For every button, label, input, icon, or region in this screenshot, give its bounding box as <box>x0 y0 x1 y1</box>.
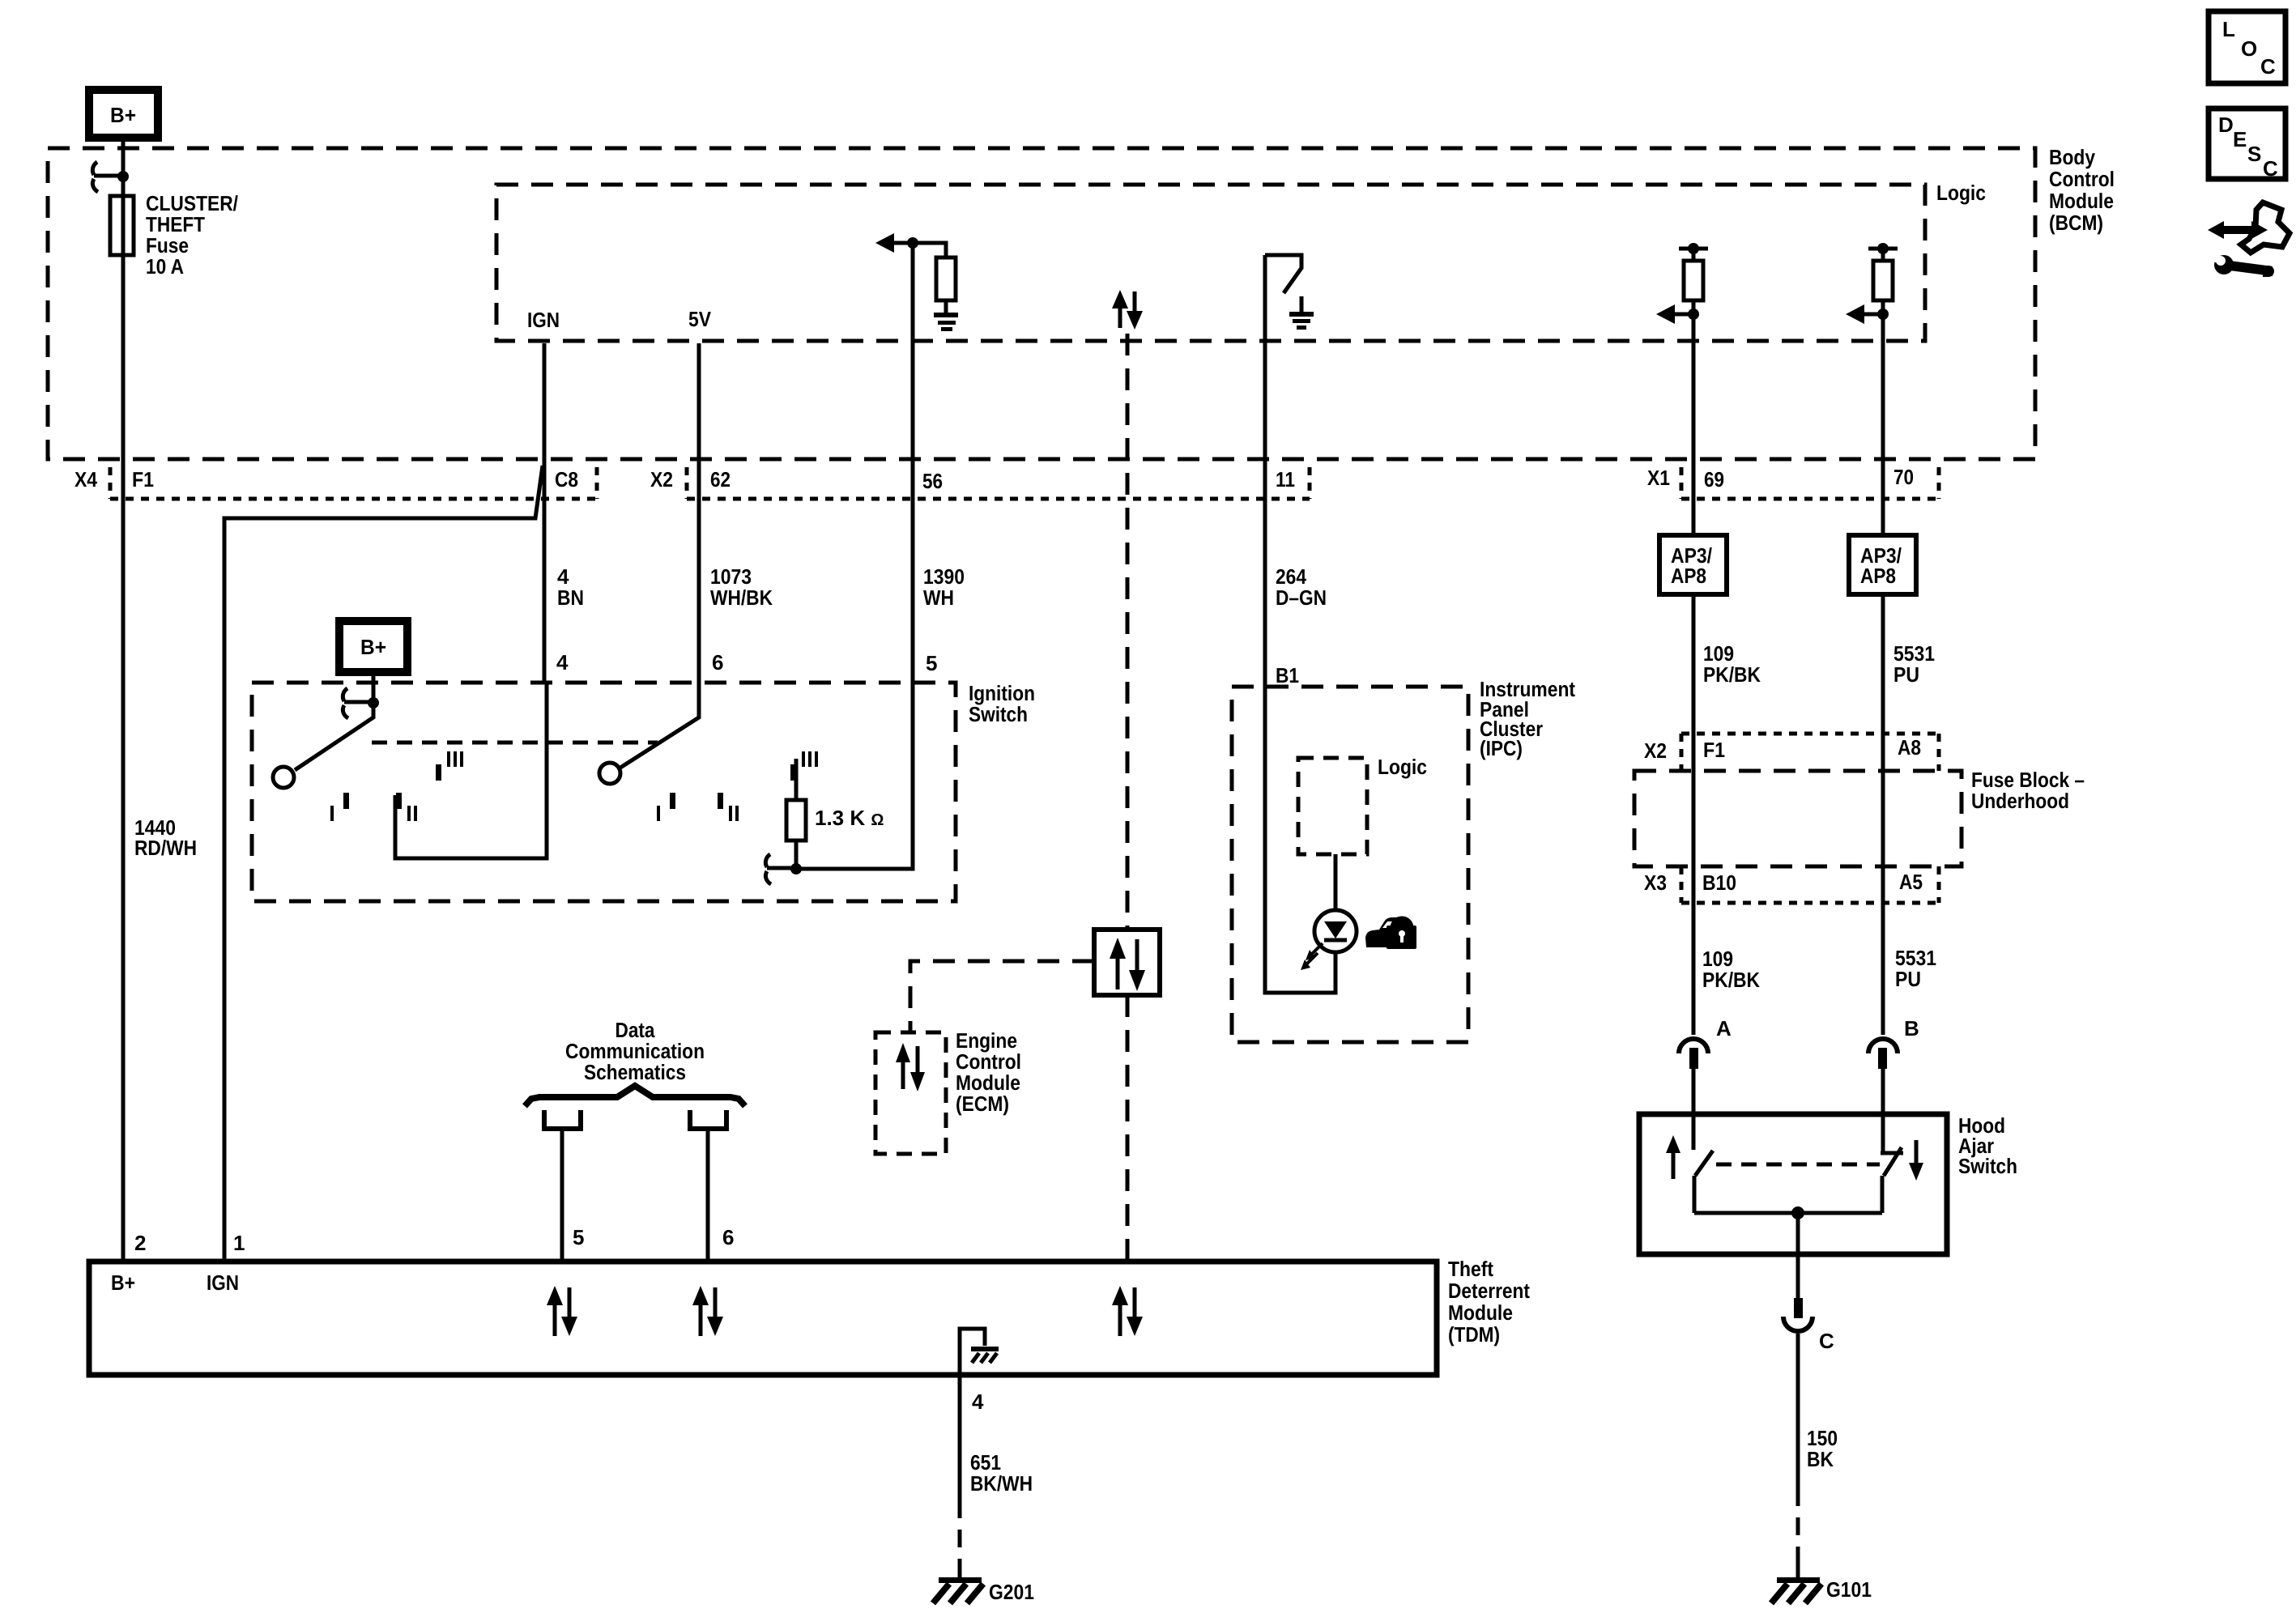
svg-text:IGN: IGN <box>527 308 560 332</box>
svg-text:11: 11 <box>1276 467 1295 491</box>
svg-text:Switch: Switch <box>1958 1154 2017 1178</box>
svg-text:B1: B1 <box>1276 663 1299 687</box>
svg-text:69: 69 <box>1704 467 1724 491</box>
svg-text:X2: X2 <box>1644 738 1667 763</box>
svg-text:A5: A5 <box>1899 870 1923 894</box>
svg-text:6: 6 <box>722 1225 734 1249</box>
svg-text:S: S <box>2247 142 2261 166</box>
svg-text:B+: B+ <box>360 635 386 659</box>
svg-text:PU: PU <box>1893 662 1919 687</box>
svg-text:G101: G101 <box>1826 1577 1872 1602</box>
svg-text:Schematics: Schematics <box>584 1060 686 1084</box>
svg-text:(TDM): (TDM) <box>1448 1322 1500 1347</box>
svg-text:Body: Body <box>2049 145 2095 169</box>
svg-text:6: 6 <box>712 650 723 674</box>
svg-text:WH/BK: WH/BK <box>710 585 773 610</box>
svg-text:F1: F1 <box>1703 738 1725 762</box>
svg-text:Module: Module <box>1448 1300 1513 1325</box>
svg-text:62: 62 <box>710 467 731 491</box>
svg-text:B10: B10 <box>1702 870 1736 895</box>
svg-text:Logic: Logic <box>1936 181 1986 205</box>
svg-text:2: 2 <box>134 1231 146 1255</box>
svg-text:B+: B+ <box>110 103 136 127</box>
svg-text:IGN: IGN <box>207 1270 239 1295</box>
svg-text:4: 4 <box>556 650 569 674</box>
svg-text:Deterrent: Deterrent <box>1448 1279 1530 1303</box>
svg-text:X1: X1 <box>1647 466 1670 490</box>
svg-text:70: 70 <box>1893 465 1914 489</box>
svg-text:X4: X4 <box>75 467 97 491</box>
svg-text:B: B <box>1904 1016 1919 1040</box>
svg-text:B+: B+ <box>111 1270 135 1295</box>
svg-text:C: C <box>2263 156 2278 181</box>
svg-text:E: E <box>2233 127 2247 151</box>
svg-text:G201: G201 <box>989 1580 1034 1604</box>
svg-text:Logic: Logic <box>1378 755 1427 779</box>
svg-text:PK/BK: PK/BK <box>1702 968 1760 992</box>
svg-text:PK/BK: PK/BK <box>1703 662 1761 687</box>
svg-text:AP8: AP8 <box>1671 564 1706 588</box>
svg-text:F1: F1 <box>132 467 154 491</box>
svg-text:5: 5 <box>926 651 937 675</box>
svg-text:Theft: Theft <box>1448 1257 1493 1281</box>
svg-text:C: C <box>2260 54 2276 79</box>
svg-text:PU: PU <box>1895 967 1921 991</box>
svg-text:RD/WH: RD/WH <box>134 836 197 860</box>
svg-text:Switch: Switch <box>969 702 1028 726</box>
svg-text:(IPC): (IPC) <box>1480 736 1523 760</box>
svg-text:X2: X2 <box>650 467 673 491</box>
svg-text:5V: 5V <box>688 307 712 331</box>
svg-text:A8: A8 <box>1898 735 1921 760</box>
svg-text:D–GN: D–GN <box>1276 585 1327 610</box>
svg-text:O: O <box>2241 36 2257 61</box>
svg-text:A: A <box>1716 1016 1732 1040</box>
svg-text:(BCM): (BCM) <box>2049 211 2103 235</box>
svg-text:Module: Module <box>2049 189 2114 213</box>
svg-text:AP8: AP8 <box>1860 564 1896 588</box>
svg-text:C: C <box>1819 1329 1834 1353</box>
svg-text:1: 1 <box>233 1231 245 1255</box>
svg-text:10 A: 10 A <box>146 254 184 279</box>
svg-text:4: 4 <box>972 1389 984 1414</box>
svg-text:BN: BN <box>557 585 584 610</box>
svg-text:Underhood: Underhood <box>1971 789 2069 813</box>
svg-text:C8: C8 <box>555 467 578 491</box>
svg-text:D: D <box>2218 113 2234 137</box>
svg-text:5: 5 <box>573 1225 584 1249</box>
svg-text:56: 56 <box>922 469 943 493</box>
svg-text:BK: BK <box>1807 1447 1834 1471</box>
svg-text:X3: X3 <box>1644 870 1667 895</box>
svg-text:L: L <box>2222 17 2235 41</box>
svg-text:Control: Control <box>2049 167 2115 191</box>
svg-text:BK/WH: BK/WH <box>970 1471 1033 1496</box>
svg-text:WH: WH <box>923 585 954 610</box>
svg-text:(ECM): (ECM) <box>956 1091 1009 1116</box>
